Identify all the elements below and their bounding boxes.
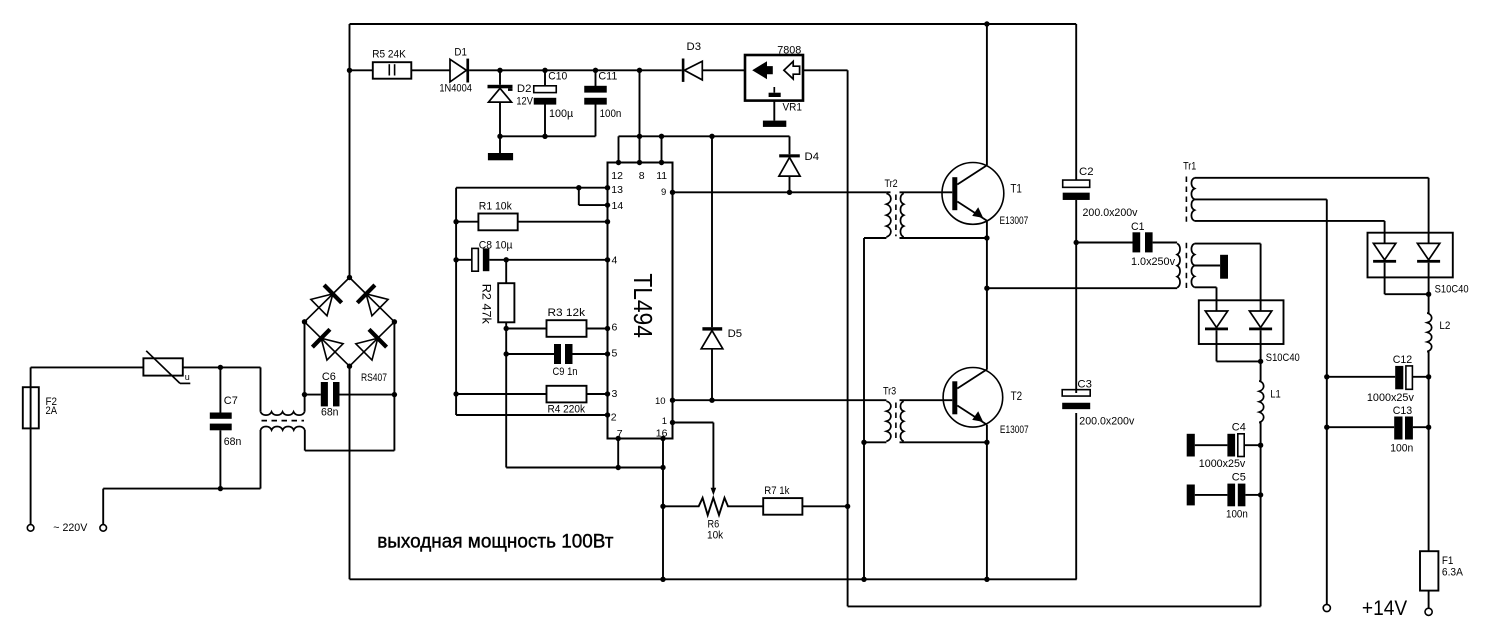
- svg-text:~ 220V: ~ 220V: [53, 522, 88, 534]
- svg-text:1N4004: 1N4004: [439, 82, 472, 94]
- svg-text:R5 24K: R5 24K: [372, 49, 406, 61]
- svg-text:3: 3: [612, 388, 618, 400]
- svg-text:C1: C1: [1131, 221, 1145, 233]
- svg-text:E13007: E13007: [1000, 424, 1029, 436]
- svg-text:1000x25v: 1000x25v: [1367, 392, 1414, 404]
- svg-text:C7: C7: [224, 395, 238, 407]
- svg-text:L2: L2: [1439, 320, 1450, 332]
- svg-text:T1: T1: [1010, 182, 1022, 196]
- svg-text:C5: C5: [1232, 471, 1246, 483]
- svg-text:E13007: E13007: [1000, 215, 1029, 227]
- svg-text:C3: C3: [1077, 379, 1092, 391]
- svg-text:S10C40: S10C40: [1435, 283, 1469, 295]
- svg-text:R6: R6: [708, 518, 720, 530]
- svg-text:D5: D5: [728, 328, 743, 340]
- svg-text:C13: C13: [1393, 405, 1413, 417]
- svg-text:10: 10: [655, 396, 666, 407]
- svg-text:R3 12k: R3 12k: [548, 307, 586, 319]
- svg-text:100n: 100n: [1390, 443, 1413, 455]
- svg-text:S10C40: S10C40: [1266, 352, 1300, 364]
- svg-text:TL494: TL494: [628, 273, 658, 338]
- svg-text:F1: F1: [1442, 555, 1454, 567]
- svg-text:C8 10µ: C8 10µ: [479, 240, 513, 252]
- svg-text:C11: C11: [598, 71, 617, 83]
- svg-text:C2: C2: [1079, 166, 1094, 178]
- svg-text:Tr2: Tr2: [885, 178, 898, 190]
- svg-text:9: 9: [661, 187, 666, 198]
- svg-text:12V: 12V: [516, 96, 533, 108]
- svg-text:200.0x200v: 200.0x200v: [1079, 416, 1134, 428]
- svg-text:R1 10k: R1 10k: [479, 201, 512, 213]
- svg-text:1.0x250v: 1.0x250v: [1131, 256, 1175, 268]
- svg-text:100n: 100n: [1226, 508, 1248, 520]
- svg-text:100n: 100n: [600, 108, 622, 120]
- svg-text:D3: D3: [687, 41, 702, 53]
- svg-text:выходная мощность 100Вт: выходная мощность 100Вт: [377, 530, 613, 552]
- svg-text:2A: 2A: [46, 405, 58, 417]
- svg-text:R4 220k: R4 220k: [548, 404, 586, 416]
- svg-text:100µ: 100µ: [549, 108, 574, 120]
- svg-text:11: 11: [656, 170, 667, 182]
- svg-text:4: 4: [612, 255, 618, 267]
- svg-text:12: 12: [611, 170, 623, 182]
- svg-text:Tr1: Tr1: [1183, 161, 1196, 173]
- svg-text:C4: C4: [1232, 422, 1246, 434]
- svg-text:L1: L1: [1270, 389, 1281, 401]
- svg-text:+14V: +14V: [1362, 597, 1407, 620]
- svg-text:5: 5: [612, 348, 618, 360]
- svg-text:D2: D2: [517, 83, 532, 95]
- svg-text:6: 6: [612, 322, 618, 334]
- svg-text:u: u: [185, 372, 190, 382]
- svg-text:C6: C6: [322, 371, 336, 383]
- svg-text:2: 2: [611, 412, 617, 424]
- svg-text:6.3A: 6.3A: [1442, 566, 1464, 578]
- svg-text:200.0x200v: 200.0x200v: [1083, 207, 1138, 219]
- svg-text:D4: D4: [805, 151, 820, 163]
- svg-text:13: 13: [611, 184, 623, 196]
- svg-text:VR1: VR1: [783, 102, 803, 114]
- svg-text:10k: 10k: [707, 530, 724, 542]
- svg-text:R2 47k: R2 47k: [479, 284, 491, 324]
- svg-text:R7 1k: R7 1k: [764, 485, 790, 497]
- svg-text:Tr3: Tr3: [883, 386, 896, 398]
- svg-text:T2: T2: [1011, 389, 1023, 403]
- svg-text:7808: 7808: [777, 45, 801, 57]
- svg-text:68n: 68n: [321, 407, 339, 419]
- svg-text:8: 8: [639, 170, 645, 182]
- svg-text:C12: C12: [1393, 354, 1413, 366]
- svg-text:RS407: RS407: [361, 372, 387, 384]
- svg-text:14: 14: [612, 200, 624, 212]
- svg-text:68n: 68n: [224, 436, 242, 448]
- svg-text:1000x25v: 1000x25v: [1199, 458, 1246, 470]
- svg-text:C10: C10: [548, 71, 567, 83]
- svg-text:D1: D1: [454, 46, 467, 58]
- svg-text:1: 1: [662, 416, 667, 427]
- svg-text:C9 1n: C9 1n: [553, 366, 578, 378]
